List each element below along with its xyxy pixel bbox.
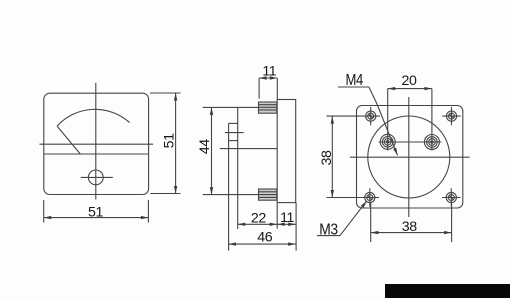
- svg-text:46: 46: [257, 229, 272, 245]
- svg-text:38: 38: [319, 150, 335, 165]
- svg-text:20: 20: [402, 73, 417, 89]
- svg-text:51: 51: [162, 133, 178, 148]
- svg-text:11: 11: [262, 63, 276, 79]
- svg-text:38: 38: [402, 219, 417, 235]
- svg-text:22: 22: [251, 211, 266, 227]
- svg-text:M4: M4: [345, 72, 363, 89]
- svg-text:11: 11: [280, 210, 294, 226]
- svg-text:51: 51: [88, 205, 103, 221]
- svg-text:M3: M3: [319, 222, 338, 239]
- svg-text:44: 44: [197, 139, 213, 154]
